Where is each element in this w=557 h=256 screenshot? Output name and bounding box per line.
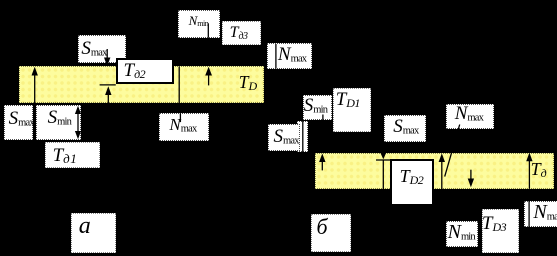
S_max upper: up arrow below T_d2 bottom edge: [107, 92, 109, 103]
label box S_max (left, diagram b): [268, 124, 301, 151]
label box N_max (top right, diagram a): [267, 43, 312, 69]
label box N_max (bottom right, diagram b): [524, 201, 557, 228]
tick: T_d2 bottom edge extended left: [100, 84, 116, 86]
up arrow line in bar b (N_max ref): [441, 159, 443, 189]
dimension line through N_max top right box: [275, 44, 277, 69]
label box S_max (above bar, diagram a): [78, 35, 126, 63]
label T_d inside bar (diagram b): [531, 160, 547, 178]
label box S_min (below bar, diagram a): [36, 105, 81, 140]
caption box a: [71, 213, 116, 253]
dimension line with up arrow at left end of bar a: [34, 72, 36, 142]
value box T_D2 on bar (diagram b): [390, 159, 434, 206]
diagonal leader from N_max box into bar b: [445, 125, 460, 177]
tolerance band bar T_D (diagram a): [19, 66, 264, 103]
short line in S_min box (diagram b): [322, 115, 324, 121]
value box T_d2 on bar (diagram a): [116, 58, 174, 84]
vertical line below tick inside bar b: [382, 160, 384, 189]
caption box b: [311, 214, 352, 252]
white strip below S_min (diagram b): [297, 121, 309, 152]
short line in N_min box: [207, 23, 209, 38]
up arrow inside bar a (N_min reference): [208, 73, 210, 85]
value box T_D1 (diagram b): [333, 88, 371, 132]
line into N_max box below bar a: [179, 113, 181, 122]
S_min double arrow below bar a: [77, 110, 79, 135]
down arrow inside bar b: [470, 170, 472, 181]
label box N_min (bottom, diagram b): [446, 221, 479, 247]
S_max dim: down arrow from S_max box to T_D2 top level: [382, 143, 384, 151]
vertical boundary line in bar a: [178, 67, 180, 104]
value box T_D3 (diagram b): [482, 209, 519, 253]
label box N_max (below bar, diagram a): [159, 113, 209, 141]
S_max upper: down arrow from S_max box to bar top: [106, 49, 108, 60]
label box S_max (below bar left, diagram a): [4, 105, 33, 140]
label T_D inside bar (diagram a): [239, 74, 257, 92]
label box N_max (mid, diagram b): [446, 104, 494, 130]
value box T_d1 (diagram a): [45, 142, 100, 168]
up arrow inside bar b at S_min position: [321, 159, 323, 170]
tolerance band bar T_d (diagram b): [315, 153, 554, 189]
label box S_min (diagram b): [303, 95, 332, 121]
value box T_d3 (diagram a): [222, 21, 261, 45]
S_min dimension line through white strip: [302, 121, 304, 152]
T_d dimension line through N_max bottom right box: [528, 200, 530, 227]
label box S_max (mid, diagram b): [384, 115, 426, 142]
label box N_min (top, diagram a): [178, 10, 220, 37]
tick: T_D2 top edge extended left: [376, 159, 392, 161]
T_d dimension: up arrow at right end of bar b: [528, 158, 530, 189]
